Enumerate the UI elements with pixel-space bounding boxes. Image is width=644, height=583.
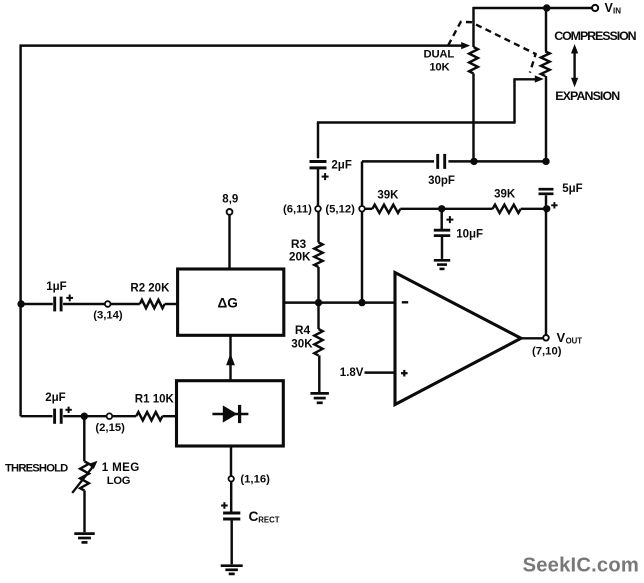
wire 10uF stem top: [440, 209, 442, 229]
label DUAL 10K: [424, 48, 455, 73]
wire right pot top: [545, 8, 547, 51]
wire 8,9 stem: [228, 215, 230, 269]
wire left pot top: [472, 7, 474, 47]
right pot wiper arrow: [535, 75, 544, 82]
capacitor 2uF (pin 6,11): [310, 162, 327, 168]
node pin5 row junction: [358, 299, 365, 306]
plus Crect: [221, 502, 228, 509]
mode arrow: [571, 44, 578, 87]
resistor 39K right: [493, 205, 521, 213]
wire 2uF row a: [21, 415, 53, 417]
svg-text:1μF: 1μF: [46, 281, 66, 293]
resistor R4: [314, 329, 322, 355]
wire right wiper horizontal: [513, 78, 536, 80]
resistor R3: [314, 242, 322, 267]
wire pin1 to Crect: [230, 482, 232, 512]
svg-text:1 MEG: 1 MEG: [102, 461, 140, 474]
svg-text:IN: IN: [613, 6, 621, 15]
svg-text:30pF: 30pF: [428, 175, 455, 187]
label 39K right: [494, 188, 516, 200]
svg-text:10μF: 10μF: [456, 229, 483, 241]
label 1.8V: [340, 367, 364, 379]
label EXPANSION: [555, 89, 620, 103]
label (3,14): [93, 310, 123, 322]
node 30pF-leftpot junction: [470, 158, 477, 165]
wire 39K row b: [400, 208, 492, 210]
node 10uF junction: [438, 205, 445, 212]
node output-39K junction: [543, 205, 550, 212]
svg-text:COMPRESSION: COMPRESSION: [554, 29, 636, 43]
wire R3 to row: [317, 267, 319, 303]
plus 2uF top: [322, 173, 329, 180]
label 5uF: [562, 183, 582, 195]
label R4 30K: [291, 323, 313, 351]
wire pin5 column top: [361, 161, 363, 206]
capacitor C_RECT: [223, 513, 240, 519]
label THRESHOLD: [5, 463, 68, 475]
label 2uF top: [331, 160, 351, 172]
resistor 39K left: [372, 205, 400, 213]
wire output column: [545, 195, 547, 334]
label (7,10): [532, 346, 562, 358]
wire 1.8V to plus input: [365, 371, 396, 373]
label 30pF: [428, 175, 455, 187]
svg-text:R2 20K: R2 20K: [130, 283, 170, 295]
label 1 MEG LOG: [102, 461, 140, 487]
svg-text:1.8V: 1.8V: [340, 367, 364, 379]
block delta-G: [178, 269, 284, 335]
capacitor 10uF: [434, 230, 450, 235]
wire 1uF row a: [21, 303, 53, 305]
node R3 row junction: [315, 299, 322, 306]
ground R4: [310, 393, 329, 402]
block rectifier: [177, 381, 284, 446]
svg-text:ΔG: ΔG: [218, 295, 238, 310]
potentiometer DUAL 10K left section: [469, 47, 478, 74]
wire wiper feed: [20, 44, 462, 46]
label (2,15): [95, 422, 125, 434]
terminal V_OUT: [543, 335, 549, 341]
svg-text:8,9: 8,9: [222, 194, 238, 206]
resistor R2: [140, 300, 165, 308]
svg-text:(6,11): (6,11): [283, 204, 312, 216]
label 10uF: [456, 229, 483, 241]
svg-text:(3,14): (3,14): [93, 310, 123, 322]
wire right wiper vertical: [513, 79, 515, 122]
plus 5uF: [551, 202, 557, 208]
wire pin6 link left vertical: [317, 123, 319, 159]
svg-text:THRESHOLD: THRESHOLD: [5, 463, 68, 475]
svg-text:20K: 20K: [289, 250, 311, 264]
capacitor 2uF input: [55, 409, 62, 424]
plus 2uF input: [65, 407, 71, 413]
wire top V_IN rail: [474, 7, 592, 9]
wire 39K row a: [365, 208, 373, 210]
wire 2uF row c: [112, 415, 136, 417]
label V_IN: [605, 1, 622, 16]
label 39K left: [377, 189, 399, 201]
op-amp U1: [395, 273, 521, 405]
label C_RECT: [249, 509, 280, 525]
potentiometer DUAL 10K right section: [541, 51, 550, 76]
wire pin5 column bottom: [361, 212, 363, 303]
wire 39K row c: [521, 208, 546, 210]
ground THRESHOLD: [74, 534, 94, 543]
wire rectifier to delta-G: [229, 335, 231, 380]
svg-text:(2,15): (2,15): [95, 422, 125, 434]
wire threshold stem bottom: [83, 491, 85, 533]
terminal (3,14): [105, 301, 111, 307]
wire left vertical: [19, 45, 21, 417]
capacitor 1uF: [55, 297, 61, 312]
wire 2uF to pin6 terminal: [317, 168, 319, 206]
node 30pF-output junction: [542, 158, 549, 165]
op-amp minus sign: [402, 301, 408, 303]
terminal V_IN: [592, 5, 598, 11]
gain control arrow: [226, 354, 235, 366]
wire delta-G output row: [284, 301, 395, 303]
svg-text:39K: 39K: [377, 189, 399, 201]
svg-text:LOG: LOG: [107, 475, 131, 487]
capacitor 30pF: [438, 154, 445, 169]
label R3 20K: [289, 237, 311, 264]
left pot wiper arrow: [461, 42, 470, 49]
plus 10uF: [446, 216, 453, 223]
svg-text:V: V: [557, 330, 566, 345]
wire 1uF row c: [111, 303, 140, 305]
wire 2uF row b: [63, 415, 106, 417]
terminal 8,9: [227, 209, 233, 215]
watermark SeekIC.com: [523, 554, 639, 576]
node V_IN junction: [543, 4, 550, 11]
potentiometer THRESHOLD 1 MEG LOG: [80, 461, 89, 490]
svg-text:EXPANSION: EXPANSION: [555, 89, 620, 103]
wire Crect to ground: [230, 519, 232, 564]
label COMPRESSION: [554, 29, 636, 43]
diode D1: [212, 405, 248, 423]
resistor R1: [136, 412, 162, 420]
label (5,12): [325, 204, 355, 216]
label R2 20K: [130, 283, 170, 295]
wire 1uF row b: [63, 303, 105, 305]
label R1 10K: [135, 394, 175, 406]
wire R4 stem top: [317, 303, 319, 329]
wire op-amp output: [521, 337, 543, 339]
ground 10uF: [434, 260, 450, 269]
svg-text:R4: R4: [295, 323, 311, 337]
wire pin6 link horizontal: [317, 121, 516, 123]
terminal (5,12): [359, 206, 365, 212]
svg-text:DUAL: DUAL: [424, 48, 455, 60]
label 8,9: [222, 194, 238, 206]
svg-text:R1 10K: R1 10K: [135, 394, 175, 406]
label (1,16): [240, 474, 270, 486]
wire 10uF stem bottom: [441, 236, 443, 259]
svg-text:OUT: OUT: [566, 336, 583, 345]
op-amp plus sign: [401, 370, 408, 377]
ground C_RECT: [221, 566, 243, 574]
wire left pot bottom: [472, 74, 474, 162]
label 2uF input: [45, 392, 65, 404]
svg-text:C: C: [249, 509, 259, 524]
label (6,11): [283, 204, 312, 216]
svg-text:(7,10): (7,10): [532, 346, 562, 358]
dashed gang line: [448, 22, 535, 73]
plus 1uF: [66, 295, 73, 302]
svg-text:10K: 10K: [429, 61, 450, 73]
wire threshold stem top: [83, 416, 85, 461]
label delta-G: [218, 295, 238, 310]
svg-text:2μF: 2μF: [331, 160, 351, 172]
label 1uF: [46, 281, 66, 293]
svg-text:5μF: 5μF: [562, 183, 582, 195]
label V_OUT: [557, 330, 583, 345]
svg-text:(1,16): (1,16): [240, 474, 270, 486]
node threshold junction: [81, 413, 88, 420]
capacitor 5uF: [539, 189, 554, 194]
wire R4 stem bottom: [318, 355, 320, 392]
wire right pot bottom: [545, 76, 547, 161]
threshold wiper arrow: [72, 461, 97, 493]
node 1uF row junction: [17, 300, 24, 307]
wire 30pF row left: [362, 160, 434, 162]
svg-text:39K: 39K: [494, 188, 516, 200]
svg-text:SeekIC.com: SeekIC.com: [523, 554, 639, 576]
svg-text:2μF: 2μF: [45, 392, 65, 404]
svg-text:RECT: RECT: [258, 516, 279, 525]
wire 2uF row d: [162, 415, 176, 417]
terminal (1,16): [229, 476, 234, 481]
terminal (2,15): [107, 413, 113, 419]
svg-text:(5,12): (5,12): [325, 204, 355, 216]
svg-text:30K: 30K: [291, 338, 313, 351]
wire rectifier to pin1: [230, 446, 232, 476]
wire pin6 to R3: [317, 212, 319, 243]
wire 1uF row d: [165, 303, 178, 305]
terminal (6,11): [315, 206, 321, 212]
wire 30pF row right: [448, 160, 546, 162]
